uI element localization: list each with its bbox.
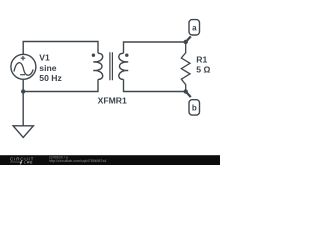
resistor R1 — [181, 42, 190, 92]
node a box — [189, 20, 200, 35]
transformer secondary coil — [119, 53, 128, 79]
wire bottom secondary — [124, 79, 186, 91]
svg-text:a: a — [192, 23, 197, 32]
node b pointer — [186, 92, 191, 98]
wire top primary — [23, 42, 98, 55]
junction dot b — [184, 89, 188, 93]
svg-text:sine: sine — [39, 63, 56, 73]
transformer XFMR1 primary coil — [93, 53, 102, 79]
svg-text:50 Hz: 50 Hz — [39, 73, 61, 83]
phase dot secondary — [125, 54, 128, 57]
watermark bar — [0, 155, 220, 165]
junction dot near ground — [21, 89, 25, 93]
svg-text:R1: R1 — [196, 55, 207, 65]
node a pointer — [186, 36, 191, 42]
svg-text:b: b — [192, 104, 197, 113]
voltage source V1 — [11, 54, 36, 79]
wire top secondary — [124, 42, 186, 53]
svg-text:V1: V1 — [39, 52, 50, 62]
svg-text:5 Ω: 5 Ω — [196, 64, 210, 74]
transformer core — [110, 52, 113, 80]
wire V1 bottom to ground — [22, 79, 24, 126]
svg-text:LAB: LAB — [24, 161, 33, 165]
ground — [13, 126, 33, 138]
wire bottom primary — [23, 79, 98, 91]
svg-text:XFMR1: XFMR1 — [98, 96, 127, 106]
svg-text:http://circuitlab.com/cqb4785k: http://circuitlab.com/cqb4785k587a4 — [49, 159, 107, 163]
phase dot primary — [92, 54, 95, 57]
junction dot a — [184, 40, 188, 44]
node b box — [189, 100, 200, 115]
